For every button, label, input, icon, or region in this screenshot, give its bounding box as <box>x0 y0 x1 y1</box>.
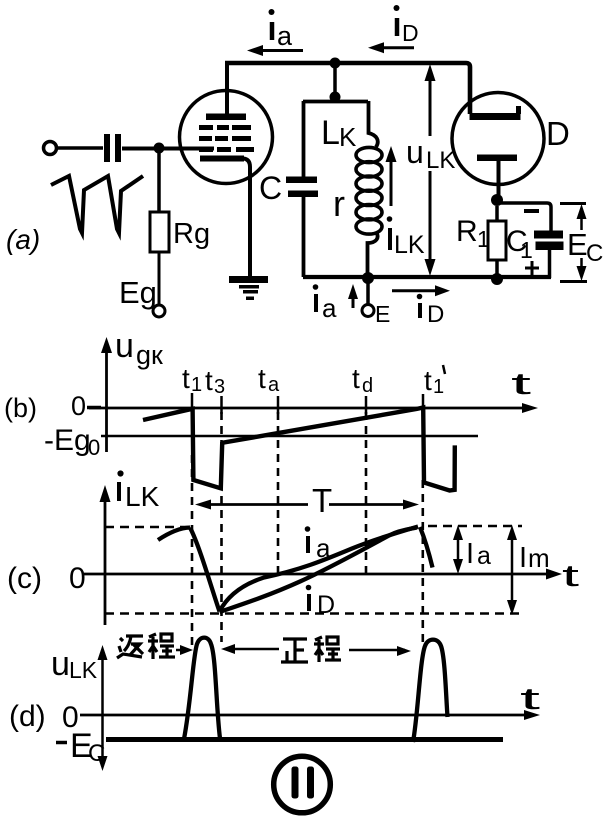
svg-text:3: 3 <box>214 376 225 398</box>
svg-text:C: C <box>259 170 282 206</box>
svg-text:D: D <box>317 591 335 619</box>
svg-text:LK: LK <box>426 147 455 174</box>
svg-text:u: u <box>51 645 70 683</box>
svg-text:I: I <box>519 542 527 574</box>
svg-text:K: K <box>339 122 357 152</box>
svg-text:0: 0 <box>88 435 100 460</box>
svg-text:t: t <box>182 363 190 394</box>
svg-text:Eg: Eg <box>119 275 157 310</box>
svg-text:LK: LK <box>394 231 425 259</box>
svg-text:t: t <box>205 365 213 396</box>
svg-text:r: r <box>333 183 345 224</box>
svg-text:T: T <box>312 482 332 519</box>
svg-text:(a): (a) <box>6 224 40 255</box>
svg-text:u: u <box>406 134 424 170</box>
svg-text:t: t <box>511 366 532 401</box>
svg-text:D: D <box>427 301 444 328</box>
svg-text:d: d <box>362 375 373 397</box>
svg-text:t: t <box>258 363 266 394</box>
svg-text:R: R <box>456 215 478 248</box>
svg-text:(b): (b) <box>4 393 37 423</box>
svg-text:0: 0 <box>69 562 86 595</box>
svg-text:1: 1 <box>191 374 202 396</box>
svg-text:a: a <box>316 533 331 563</box>
svg-text:LK: LK <box>69 657 98 683</box>
svg-text:I: I <box>466 538 474 570</box>
svg-text:E: E <box>375 301 390 327</box>
svg-text:L: L <box>321 114 340 152</box>
svg-text:a: a <box>477 542 491 570</box>
svg-text:1: 1 <box>433 376 444 398</box>
svg-text:LK: LK <box>125 481 160 512</box>
svg-text:t: t <box>352 363 360 394</box>
svg-text:t: t <box>520 681 541 716</box>
svg-text:a: a <box>322 293 337 323</box>
svg-text:m: m <box>528 543 550 573</box>
svg-text:1: 1 <box>520 237 533 263</box>
svg-text:C: C <box>88 740 105 767</box>
svg-text:D: D <box>546 115 570 152</box>
svg-text:C: C <box>586 240 603 267</box>
svg-text:(c): (c) <box>7 562 42 595</box>
svg-text:-Eg: -Eg <box>44 424 91 457</box>
svg-text:t: t <box>424 365 432 396</box>
svg-text:D: D <box>402 20 419 46</box>
svg-text:gк: gк <box>136 340 163 370</box>
svg-text:1: 1 <box>477 226 490 252</box>
svg-text:a: a <box>277 21 293 51</box>
svg-text:(d): (d) <box>9 700 46 733</box>
svg-text:t: t <box>562 558 580 593</box>
svg-text:u: u <box>115 327 134 365</box>
svg-text:a: a <box>268 374 280 396</box>
svg-text:E: E <box>567 227 588 262</box>
svg-text:0: 0 <box>71 391 86 421</box>
svg-text:Rg: Rg <box>173 218 210 250</box>
